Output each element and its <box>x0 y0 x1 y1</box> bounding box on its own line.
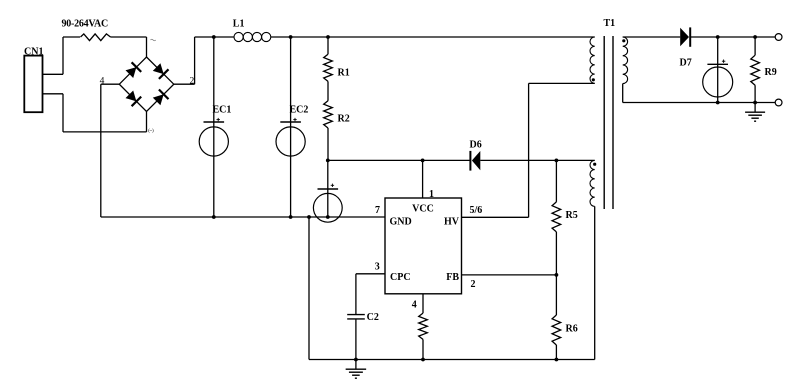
label pin number 2 <box>471 279 476 290</box>
node junction R6 bottom <box>555 358 559 362</box>
diode D7 <box>680 28 689 47</box>
wire fuse to bridge <box>111 36 147 38</box>
wire CPC lead <box>356 273 385 275</box>
label U1 pin HV <box>444 217 460 228</box>
svg-text:5/6: 5/6 <box>470 205 483 216</box>
label U1 pin CPC <box>390 272 411 283</box>
transformer T1 secondary winding <box>623 37 628 84</box>
wire R9 top lead <box>754 37 756 55</box>
connector CN1 <box>24 56 42 113</box>
label EC2 <box>290 105 309 116</box>
wire secondary top to D7 <box>623 36 681 38</box>
transformer T1 aux winding <box>590 160 595 206</box>
transformer T1 primary winding <box>590 37 595 83</box>
wire CN1 pin1 stub <box>43 73 64 75</box>
wire CN1 pin2 drop <box>62 94 64 132</box>
wire bridge pin2 out <box>174 83 195 85</box>
node junction EC1 bottom <box>212 215 216 219</box>
node AC1 tilde mark <box>151 39 156 41</box>
wire R1 top lead <box>327 37 329 54</box>
wire HV to riser <box>462 216 529 218</box>
svg-text:90-264VAC: 90-264VAC <box>62 19 108 30</box>
svg-text:3: 3 <box>375 261 380 272</box>
svg-text:R9: R9 <box>765 67 777 78</box>
wire secondary bottom drop <box>622 84 624 103</box>
ground main <box>346 360 367 379</box>
svg-text:T1: T1 <box>604 18 616 29</box>
label D6 <box>470 140 482 151</box>
wire top rail right of L1 <box>271 36 595 38</box>
wire U1 pin4 lead <box>422 294 424 313</box>
diode D6 <box>472 151 480 170</box>
wire CN1 pin1 riser <box>62 37 64 74</box>
svg-text:CN1: CN1 <box>24 46 43 57</box>
svg-text:R5: R5 <box>566 210 578 221</box>
wire D7 to output+ <box>690 36 775 38</box>
capacitor VCC bypass <box>313 160 342 222</box>
wire R5 top lead <box>555 160 557 202</box>
wire pin4 resistor bottom lead <box>422 339 424 359</box>
node junction R9 bottom <box>753 101 757 105</box>
label pin number 5/6 <box>470 205 483 216</box>
wire HV riser <box>528 83 530 217</box>
node junction C2 ground <box>354 358 358 362</box>
svg-text:D6: D6 <box>470 140 482 151</box>
node junction R5 top <box>555 159 559 163</box>
label CN1 <box>24 46 43 57</box>
label pin number 3 <box>375 261 380 272</box>
wire U1 pin1 lead <box>422 160 424 198</box>
capacitor EC1 <box>199 37 228 217</box>
ground output <box>745 103 765 122</box>
transformer T1 core <box>604 36 613 209</box>
resistor R6 <box>552 315 561 345</box>
wire top rail left of L1 <box>195 36 234 38</box>
wire bridge pin2 riser <box>194 37 196 84</box>
terminal output + <box>775 34 782 41</box>
svg-text:GND: GND <box>390 217 412 228</box>
bridge diode D-left-bottom <box>126 91 142 107</box>
node junction pin1 tap <box>421 159 425 163</box>
wire output bottom rail <box>623 102 776 104</box>
svg-text:R6: R6 <box>566 324 578 335</box>
label L1 <box>233 19 245 30</box>
capacitor C2 <box>347 315 365 319</box>
svg-text:R1: R1 <box>338 68 350 79</box>
wire R6 bottom lead <box>555 345 557 360</box>
wire R9 bottom lead <box>754 85 756 102</box>
wire aux rail left <box>328 159 470 161</box>
node junction VCC cap bottom <box>326 215 330 219</box>
inductor L1 <box>234 32 271 41</box>
node junction EC2 top <box>289 35 293 39</box>
label R2 <box>338 114 350 125</box>
label R6 <box>566 324 578 335</box>
svg-text:FB: FB <box>446 272 459 283</box>
svg-text:2: 2 <box>471 279 476 290</box>
svg-text:1: 1 <box>429 189 434 200</box>
label U1 pin VCC <box>412 204 434 215</box>
label R1 <box>338 68 350 79</box>
svg-text:HV: HV <box>444 217 460 228</box>
label pin number 4 <box>412 300 417 311</box>
capacitor EC2 <box>276 37 305 217</box>
label bridge pin 4 <box>100 76 105 86</box>
svg-text:(~): (~) <box>148 129 154 134</box>
wire R5 bottom lead <box>555 232 557 275</box>
wire aux winding to bottom rail <box>594 206 596 359</box>
fuse 90-264VAC <box>81 34 111 41</box>
wire fuse left <box>63 36 80 38</box>
node junction EC1 top <box>212 35 216 39</box>
wire aux rail right <box>480 159 594 161</box>
bridge rectifier diamond <box>119 57 174 112</box>
transformer T1 aux polarity dot <box>593 163 596 166</box>
node junction VCC cap top <box>326 159 330 163</box>
wire bridge bottom stub <box>146 112 148 132</box>
svg-text:EC2: EC2 <box>290 105 309 116</box>
node junction output cap bottom <box>716 101 720 105</box>
resistor R2 <box>324 101 333 128</box>
wire GND rail <box>101 216 385 218</box>
svg-text:L1: L1 <box>233 19 245 30</box>
wire drop left of bottom loop <box>308 217 310 360</box>
wire C2 bottom lead <box>355 319 357 360</box>
terminal output - <box>775 99 782 106</box>
wire bridge pin4 out <box>101 83 120 85</box>
op-amp U1 body <box>385 198 462 294</box>
label T1 <box>604 18 616 29</box>
label EC1 <box>213 105 232 116</box>
svg-text:VCC: VCC <box>412 204 434 215</box>
label pin number 1 <box>429 189 434 200</box>
wire bottom rail <box>309 359 595 361</box>
label U1 pin GND <box>390 217 412 228</box>
svg-text:EC1: EC1 <box>213 105 232 116</box>
label D7 <box>680 58 692 69</box>
wire R1-R2 link <box>327 81 329 100</box>
wire HV to primary bottom <box>529 82 595 84</box>
node junction R9 top <box>753 35 757 39</box>
wire bridge top stub <box>146 37 148 57</box>
svg-text:7: 7 <box>375 205 380 216</box>
resistor on pin 4 <box>419 313 428 339</box>
svg-text:D7: D7 <box>680 58 692 69</box>
svg-text:R2: R2 <box>338 114 350 125</box>
resistor R1 <box>324 54 333 81</box>
wire CN1 pin2 stub <box>43 93 64 95</box>
capacitor output <box>703 37 733 103</box>
resistor R9 <box>751 55 760 85</box>
label U1 pin FB <box>446 272 459 283</box>
node junction EC2 bottom <box>289 215 293 219</box>
label R5 <box>566 210 578 221</box>
node junction R1 top <box>326 35 330 39</box>
transformer T1 secondary polarity dot <box>622 39 625 42</box>
node junction pin4 resistor bottom <box>421 358 425 362</box>
node junction FB R5/R6 <box>555 273 559 277</box>
svg-text:4: 4 <box>412 300 417 311</box>
label 90-264VAC <box>62 19 108 30</box>
label bridge pin 2 <box>190 76 195 86</box>
bridge diode D-left-top <box>126 62 142 78</box>
transformer T1 primary polarity dot <box>592 78 595 81</box>
wire CPC drop <box>355 274 357 315</box>
svg-text:2: 2 <box>190 76 195 86</box>
resistor R5 <box>552 202 561 232</box>
diode D6 cathode bar <box>469 151 471 171</box>
node AC2 tilde mark <box>148 129 154 134</box>
bridge diode D-top-right <box>153 63 169 79</box>
wire FB <box>462 274 557 276</box>
label R9 <box>765 67 777 78</box>
node junction drop to bottom rail <box>307 215 311 219</box>
label C2 <box>367 312 379 323</box>
svg-text:C2: C2 <box>367 312 379 323</box>
label pin number 7 <box>375 205 380 216</box>
wire AC2 <box>63 131 147 133</box>
wire R2 bottom lead <box>327 128 329 160</box>
node junction output cap top <box>716 35 720 39</box>
svg-text:CPC: CPC <box>390 272 411 283</box>
diode D7 cathode bar <box>689 27 691 46</box>
wire bridge pin4 drop <box>100 84 102 217</box>
bridge diode D-bottom-right <box>153 90 169 106</box>
wire R6 top lead <box>555 275 557 315</box>
